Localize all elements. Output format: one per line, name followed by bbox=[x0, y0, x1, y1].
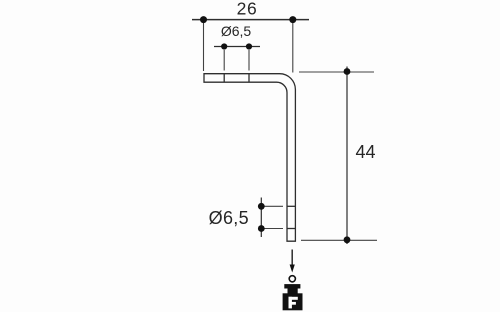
extension line right of 26 bbox=[292, 23, 294, 73]
leader line top of bottom hole bbox=[261, 205, 283, 207]
dot right of top Ø6,5 dimension bbox=[246, 43, 252, 49]
weight symbol cap bbox=[284, 284, 300, 288]
force arrow shaft bbox=[291, 250, 293, 267]
extension line left of 26 bbox=[203, 23, 205, 71]
dot right of 26 dimension bbox=[289, 16, 296, 23]
weight symbol ring bbox=[289, 276, 295, 282]
svg-text:26: 26 bbox=[237, 0, 258, 19]
leader line bottom of bottom hole bbox=[261, 228, 283, 230]
weight symbol neck bbox=[288, 289, 298, 294]
dimension line bottom Ø6,5 bbox=[260, 198, 262, 238]
extension line top of 44 bbox=[299, 71, 374, 73]
bracket outline (L-shaped part) bbox=[204, 74, 295, 242]
dot top of 44 dimension bbox=[344, 68, 351, 75]
dot bottom of 44 dimension bbox=[344, 236, 351, 243]
svg-text:Ø6,5: Ø6,5 bbox=[221, 23, 252, 39]
dot top of bottom Ø6,5 dimension bbox=[258, 203, 265, 210]
dot bottom of bottom Ø6,5 dimension bbox=[258, 225, 265, 232]
svg-text:44: 44 bbox=[355, 142, 375, 162]
svg-text:Ø6,5: Ø6,5 bbox=[209, 208, 249, 228]
hole edge left (horizontal arm) bbox=[223, 74, 225, 83]
force arrowhead bbox=[290, 265, 295, 273]
dot left of 26 dimension bbox=[200, 16, 207, 23]
dimension line 44 bbox=[346, 67, 348, 245]
extension line bottom of 44 bbox=[301, 239, 377, 241]
extension line left hole bbox=[223, 50, 225, 71]
extension line right hole bbox=[248, 50, 250, 71]
weight symbol letter F bbox=[289, 297, 298, 309]
dimension line top Ø6,5 bbox=[214, 46, 260, 48]
hole edge top (vertical arm) bbox=[287, 205, 295, 207]
dimension line 26 bbox=[192, 19, 309, 21]
weight symbol body bbox=[283, 293, 303, 310]
dot left of top Ø6,5 dimension bbox=[221, 43, 227, 49]
hole edge bottom (vertical arm) bbox=[287, 228, 295, 230]
hole edge right (horizontal arm) bbox=[248, 74, 250, 83]
